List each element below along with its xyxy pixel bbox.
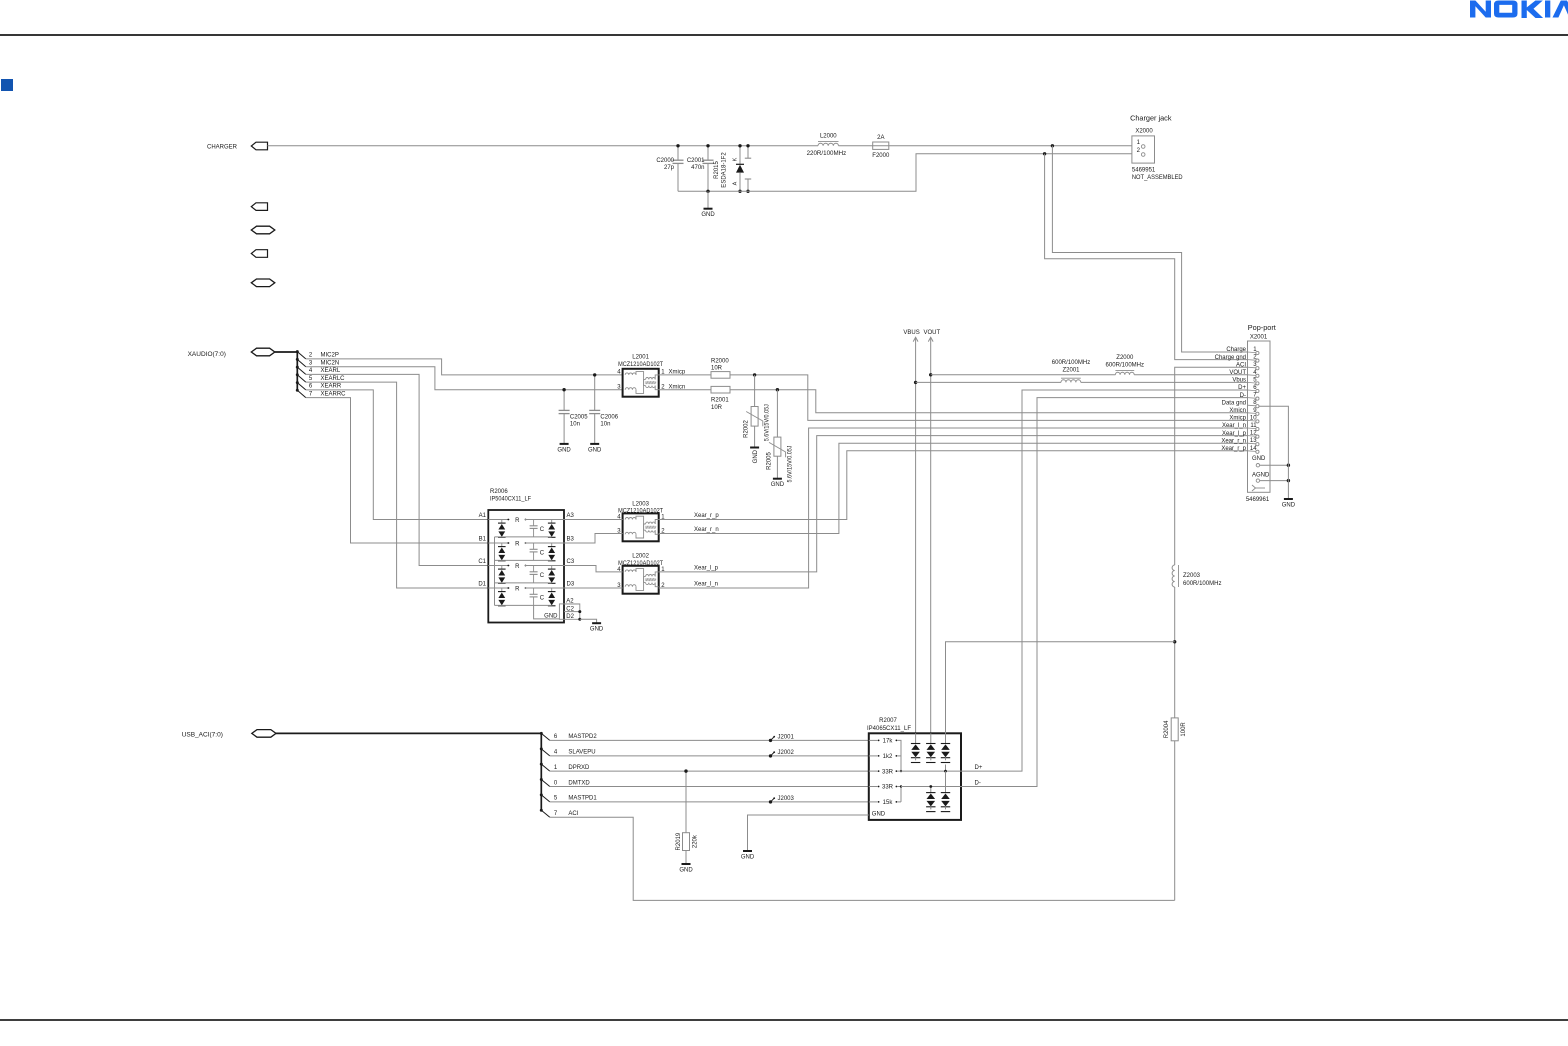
- svg-text:C3: C3: [567, 559, 575, 565]
- bus ripper XAUDIO bit 5 XEARLC: [296, 373, 345, 382]
- svg-text:R: R: [515, 541, 520, 547]
- wire junction to R2007 top col3: [946, 642, 1175, 734]
- wire F2000 to charger jack: [889, 145, 1140, 147]
- svg-text:33R: 33R: [882, 769, 894, 775]
- svg-text:R2002: R2002: [744, 420, 750, 438]
- svg-text:L2000: L2000: [820, 134, 837, 140]
- svg-text:A: A: [733, 181, 739, 185]
- svg-text:D+: D+: [975, 765, 983, 771]
- svg-text:100R: 100R: [1181, 722, 1187, 737]
- ground C2006: [588, 444, 602, 454]
- svg-text:Xear_r_n: Xear_r_n: [694, 527, 719, 533]
- wire Charge net to pop-port pin1: [1052, 146, 1247, 352]
- pop-port pin8 circle wire to gnd: [1259, 406, 1288, 499]
- R2006 channel A1-A3: [479, 513, 575, 537]
- wire MIC2P to L2001 pin4: [306, 359, 623, 375]
- svg-text:470n: 470n: [691, 165, 704, 171]
- pop-port pin 1 Charge: [1226, 347, 1259, 355]
- svg-text:X2000: X2000: [1135, 128, 1153, 134]
- port CHARGER: [251, 142, 267, 150]
- svg-text:15k: 15k: [883, 800, 894, 806]
- net VBUS: [903, 330, 919, 733]
- svg-text:5469961: 5469961: [1246, 497, 1270, 503]
- svg-text:GND: GND: [590, 627, 604, 633]
- wire CHARGER main: [268, 145, 819, 147]
- svg-text:R: R: [515, 586, 520, 592]
- wire R2006 A3 to L2003 pin4: [564, 519, 623, 521]
- inductor L2000: [807, 134, 847, 158]
- capacitor C2000: [656, 146, 683, 192]
- bus ripper XAUDIO bit 6 XEARR: [296, 381, 342, 390]
- svg-text:B1: B1: [479, 537, 487, 543]
- pop-port pin 5 Vbus: [1232, 377, 1259, 385]
- svg-text:Z2001: Z2001: [1062, 367, 1080, 373]
- junction charger/jack pin1: [1051, 144, 1054, 147]
- varistor R2002: [744, 375, 771, 448]
- pop-port pin 12 Xear_l_p: [1222, 431, 1259, 439]
- svg-text:5: 5: [554, 796, 558, 802]
- svg-text:GND: GND: [679, 868, 693, 874]
- svg-text:R2001: R2001: [711, 398, 729, 404]
- svg-text:Xear_r_p: Xear_r_p: [1221, 446, 1246, 452]
- svg-text:R2004: R2004: [1164, 720, 1170, 738]
- resistor R2004 100R: [1164, 718, 1187, 741]
- wire D+ to pop-port pin6: [961, 390, 1248, 771]
- svg-text:0: 0: [554, 780, 558, 786]
- svg-text:GND: GND: [557, 447, 571, 453]
- EMI filter R2006 IP5040CX11_LF: [488, 489, 564, 622]
- svg-text:7: 7: [554, 811, 558, 817]
- varistor R2005: [766, 390, 793, 483]
- svg-text:5.6V/15V/0.05J: 5.6V/15V/0.05J: [765, 404, 771, 441]
- svg-text:1k2: 1k2: [883, 754, 893, 760]
- svg-text:MIC2N: MIC2N: [321, 361, 340, 367]
- pop-port pin 6 D+: [1238, 385, 1259, 393]
- junction VBUS/Vbus row: [914, 381, 917, 384]
- wire ACI net: [550, 817, 1175, 900]
- svg-text:IP5040CX11_LF: IP5040CX11_LF: [490, 497, 531, 503]
- svg-text:Xear_l_n: Xear_l_n: [1222, 423, 1246, 429]
- svg-text:R2019: R2019: [676, 832, 682, 850]
- svg-text:C2006: C2006: [600, 415, 618, 421]
- svg-text:R2000: R2000: [711, 358, 729, 364]
- svg-text:27p: 27p: [664, 165, 675, 171]
- wire XEARR to R2006 A1: [306, 390, 489, 520]
- junction R2019 tap: [684, 769, 687, 772]
- pop-port pin 4 VOUT: [1229, 370, 1259, 378]
- wire XAUDIO bus spine: [296, 351, 298, 391]
- port USB_ACI(7:0): [252, 730, 276, 738]
- ground C2005: [557, 444, 571, 454]
- svg-text:5.6V/15V/0.05J: 5.6V/15V/0.05J: [787, 446, 793, 483]
- pop-port pin 7 D-: [1240, 393, 1259, 401]
- junction jack pin2: [1043, 152, 1046, 155]
- svg-text:C: C: [540, 550, 545, 556]
- wire Z2003 to R2004: [1174, 587, 1176, 718]
- R2007 internal bracket top: [897, 740, 901, 771]
- pop-port pin 10 Xmicp: [1229, 415, 1259, 423]
- wire L2001 pin2 Xmicn: [659, 389, 711, 391]
- svg-text:MIC2P: MIC2P: [321, 353, 339, 359]
- diode R2015 ESDA18-1F2: [714, 146, 751, 192]
- R2007 internal resistor 33R: [869, 785, 898, 791]
- svg-text:GND: GND: [753, 449, 759, 463]
- net VOUT: [923, 330, 940, 733]
- wire MASTPD2 to R2007: [550, 739, 869, 741]
- svg-text:A3: A3: [567, 513, 575, 519]
- svg-text:CHARGER: CHARGER: [207, 144, 238, 150]
- svg-text:Xear_l_p: Xear_l_p: [1222, 431, 1247, 437]
- svg-text:GND: GND: [741, 855, 755, 861]
- svg-text:GND: GND: [1252, 456, 1266, 462]
- svg-text:Z2000: Z2000: [1116, 355, 1134, 361]
- bus ripper XAUDIO bit 2 MIC2P: [296, 350, 339, 359]
- pop-port AGND pin: [1252, 472, 1288, 482]
- svg-text:B3: B3: [567, 537, 575, 543]
- fuse F2000: [872, 135, 890, 159]
- svg-text:Z2003: Z2003: [1183, 573, 1201, 579]
- R2006 internal gnd bus: [494, 537, 496, 606]
- svg-text:600R/100MHz: 600R/100MHz: [1183, 581, 1222, 587]
- ground R2019: [679, 864, 693, 874]
- wire DPRXD to R2007: [550, 770, 869, 772]
- pop-port pin 2 Charge gnd: [1215, 355, 1259, 363]
- wire DMTXD to R2007: [550, 786, 869, 788]
- wire Vbus to pop-port pin5: [916, 381, 1061, 383]
- R2006 gnd pins A2 C2 D2: [544, 599, 581, 621]
- wire R2006 C3 to L2002 pin4: [564, 566, 623, 572]
- R2006 channel C1-C3: [478, 559, 575, 583]
- wire SLAVEPU to R2007: [550, 755, 869, 757]
- pop-port pin 8 Data gnd: [1222, 400, 1259, 408]
- svg-text:10n: 10n: [600, 422, 610, 428]
- svg-text:10n: 10n: [570, 422, 580, 428]
- port stub (bus): [251, 279, 274, 287]
- svg-text:R2006: R2006: [490, 489, 508, 495]
- bus ripper XAUDIO bit 4 XEARL: [296, 366, 341, 375]
- bus ripper USB_ACI bit 6 MASTPD2: [540, 732, 598, 741]
- svg-text:A1: A1: [479, 513, 487, 519]
- inductor Z2003 600R/100MHz: [1172, 565, 1221, 587]
- ground R2002: [750, 448, 759, 464]
- pop-port pin 9 Xmicn: [1229, 408, 1259, 416]
- svg-text:4: 4: [309, 368, 313, 374]
- R2007 internal resistor 15k: [869, 800, 898, 806]
- svg-text:600R/100MHz: 600R/100MHz: [1052, 360, 1091, 366]
- svg-text:33R: 33R: [882, 785, 894, 791]
- svg-text:17k: 17k: [883, 739, 894, 745]
- wire USB_ACI bus spine: [540, 733, 542, 810]
- R2007 internal resistor 1k2: [869, 754, 898, 760]
- R2007 internal bracket bottom: [897, 787, 901, 802]
- pop-port shield pin: [1252, 485, 1256, 491]
- svg-text:MCZ1210AD102T: MCZ1210AD102T: [618, 362, 663, 368]
- wire Xear_r_n to pop-port pin13: [659, 443, 1248, 533]
- svg-text:5: 5: [309, 376, 313, 382]
- R2007 col3 down to D+: [945, 765, 947, 772]
- inductor L2001 MCZ1210AD102T: [617, 355, 665, 397]
- svg-text:C: C: [540, 527, 545, 533]
- junction gnd: [1287, 464, 1290, 467]
- bus ripper USB_ACI bit 7 ACI: [540, 809, 579, 818]
- R2007 internal resistor 33R: [869, 769, 898, 775]
- svg-text:R2005: R2005: [766, 452, 772, 470]
- junction VOUT row: [929, 373, 932, 376]
- svg-text:IP4065CX11_LF: IP4065CX11_LF: [867, 726, 911, 732]
- charger jack X2000: [1130, 114, 1183, 182]
- svg-text:XEARR: XEARR: [321, 384, 342, 390]
- svg-text:L2002: L2002: [632, 554, 649, 560]
- svg-text:D-: D-: [975, 781, 981, 787]
- R2007 internal resistor 17k: [869, 739, 898, 745]
- svg-text:C: C: [540, 595, 545, 601]
- svg-text:Xmicn: Xmicn: [1229, 408, 1246, 414]
- svg-text:Xear_r_p: Xear_r_p: [694, 513, 719, 519]
- svg-text:Charger jack: Charger jack: [1130, 114, 1172, 123]
- capacitor C2001: [687, 146, 714, 192]
- svg-text:R2015: R2015: [714, 161, 720, 179]
- bus ripper XAUDIO bit 3 MIC2N: [296, 358, 339, 367]
- svg-text:XEARL: XEARL: [321, 368, 341, 374]
- svg-text:7: 7: [309, 391, 313, 397]
- bus ripper XAUDIO bit 7 XEARRC: [296, 389, 346, 398]
- junction C2001 top: [706, 144, 709, 147]
- resistor R2001 10R: [711, 386, 730, 410]
- junction rail C2001: [706, 190, 709, 193]
- svg-text:1: 1: [554, 765, 558, 771]
- wire L2000 to F2000: [839, 145, 873, 147]
- svg-text:MCZ1210AD102T: MCZ1210AD102T: [618, 508, 663, 514]
- svg-text:2A: 2A: [877, 135, 884, 141]
- svg-text:AGND: AGND: [1252, 472, 1270, 478]
- svg-text:L2003: L2003: [632, 501, 649, 507]
- svg-text:R: R: [515, 564, 520, 570]
- wire Xear_l_n to pop-port pin11: [659, 428, 1248, 588]
- capacitor C2005: [559, 390, 589, 444]
- svg-text:X2001: X2001: [1250, 334, 1268, 340]
- junction R2002 tap: [753, 373, 756, 376]
- svg-text:VOUT: VOUT: [1229, 370, 1246, 376]
- wire MASTPD1 to R2007: [550, 801, 869, 803]
- svg-text:XEARLC: XEARLC: [321, 376, 346, 382]
- resistor R2019 220k: [676, 771, 699, 864]
- bus ripper USB_ACI bit 0 DMTXD: [540, 778, 591, 787]
- test point J2003: [769, 796, 795, 804]
- R2007 D- row: [901, 786, 961, 788]
- svg-text:D-: D-: [1240, 393, 1246, 399]
- bus ripper USB_ACI bit 1 DPRXD: [540, 763, 590, 772]
- svg-text:DPRXD: DPRXD: [568, 765, 590, 771]
- wire R2007 gnd: [748, 815, 869, 851]
- junction C2005: [562, 388, 565, 391]
- wire USB_ACI bus: [276, 732, 541, 734]
- svg-text:VOUT: VOUT: [923, 330, 940, 336]
- svg-text:C2001: C2001: [687, 158, 705, 164]
- svg-text:Xear_r_n: Xear_r_n: [1221, 438, 1246, 444]
- svg-text:K: K: [733, 157, 739, 161]
- inductor L2003 MCZ1210AD102T: [617, 501, 665, 541]
- svg-text:D1: D1: [478, 582, 486, 588]
- header rule: [0, 34, 1568, 36]
- svg-text:R: R: [515, 518, 520, 524]
- wire XEARLC to R2006 D1: [306, 382, 489, 588]
- wire Xear_l_p to pop-port pin12: [659, 436, 1248, 572]
- port stub (input): [251, 250, 267, 258]
- ground R2007: [741, 851, 755, 861]
- svg-text:J2003: J2003: [778, 796, 795, 802]
- svg-text:C2: C2: [566, 606, 574, 612]
- R2007 D+ row: [897, 770, 961, 772]
- svg-text:XAUDIO(7:0): XAUDIO(7:0): [188, 351, 226, 358]
- wire ACI to pop-port pin3: [1175, 367, 1248, 565]
- pop-port pin 11 Xear_l_n: [1222, 423, 1259, 431]
- wire R2001 to pop-port pin9 Xmicn: [730, 390, 1248, 413]
- pop-port pin 13 Xear_r_n: [1221, 438, 1259, 446]
- svg-text:J2002: J2002: [778, 750, 795, 756]
- svg-text:C: C: [540, 573, 545, 579]
- svg-text:GND: GND: [771, 482, 785, 488]
- junction C2006: [593, 373, 596, 376]
- svg-text:MCZ1210AD102T: MCZ1210AD102T: [618, 561, 663, 567]
- svg-text:SLAVEPU: SLAVEPU: [568, 750, 595, 756]
- footer rule: [0, 1019, 1568, 1021]
- svg-text:D2: D2: [566, 614, 574, 620]
- svg-text:F2000: F2000: [872, 153, 890, 159]
- svg-text:USB_ACI(7:0): USB_ACI(7:0): [182, 732, 223, 739]
- ground pop-port: [1282, 499, 1296, 509]
- svg-text:ESDA18-1F2: ESDA18-1F2: [722, 152, 728, 188]
- wire XAUDIO bus: [275, 351, 298, 353]
- connector X2001 Pop-port: [1246, 323, 1276, 503]
- inductor L2002 MCZ1210AD102T: [617, 554, 665, 594]
- port XAUDIO(7:0): [251, 348, 274, 356]
- wire MIC2N to L2001 pin3: [306, 367, 623, 390]
- junction agnd: [1287, 479, 1290, 482]
- wire Xear_r_p to pop-port pin14: [659, 451, 1248, 520]
- svg-text:2: 2: [309, 353, 313, 359]
- svg-text:6: 6: [554, 734, 558, 740]
- svg-text:4: 4: [554, 750, 558, 756]
- svg-text:MASTPD2: MASTPD2: [568, 734, 597, 740]
- svg-text:NOT_ASSEMBLED: NOT_ASSEMBLED: [1132, 175, 1183, 181]
- ground R2005: [771, 479, 785, 489]
- svg-text:GND: GND: [544, 614, 558, 620]
- wire VOUT to pop-port pin4: [931, 374, 1116, 376]
- svg-text:C2000: C2000: [656, 158, 674, 164]
- svg-text:C1: C1: [478, 559, 486, 565]
- svg-text:ACI: ACI: [568, 811, 578, 817]
- wire D- to pop-port pin7: [961, 398, 1248, 787]
- wire R2006 gnd out: [580, 619, 597, 623]
- svg-text:R2007: R2007: [879, 718, 897, 724]
- wire R2006 B3 to L2003 pin3: [564, 534, 623, 544]
- svg-text:D+: D+: [1238, 385, 1246, 391]
- svg-text:Pop-port: Pop-port: [1248, 323, 1276, 332]
- svg-text:Xear_l_n: Xear_l_n: [694, 581, 718, 587]
- capacitor C2006: [589, 375, 619, 444]
- inductor Z2001 600R/100MHz: [1052, 360, 1091, 383]
- R2006 channel B1-B3: [479, 537, 575, 561]
- pop-port GND pin: [1252, 456, 1288, 467]
- svg-text:Data gnd: Data gnd: [1222, 400, 1246, 406]
- pop-port pin 3 ACI: [1236, 362, 1259, 370]
- blue section square: [1, 79, 13, 91]
- wire XEARL to R2006 C1: [306, 374, 489, 565]
- junction C2000 top: [676, 144, 679, 147]
- svg-text:GND: GND: [872, 812, 886, 818]
- svg-text:C2005: C2005: [570, 415, 588, 421]
- junction ACI/R2007 branch: [1173, 640, 1176, 643]
- port stub (input): [251, 203, 267, 211]
- svg-text:Xear_l_p: Xear_l_p: [694, 565, 719, 571]
- svg-text:5469951: 5469951: [1132, 167, 1156, 173]
- bus ripper USB_ACI bit 4 SLAVEPU: [540, 747, 596, 756]
- svg-text:ACI: ACI: [1236, 362, 1246, 368]
- port stub (bus): [251, 226, 274, 234]
- test point J2002: [769, 750, 795, 758]
- svg-text:GND: GND: [1282, 503, 1296, 509]
- wire R2006 D3 to L2002 pin3: [564, 587, 623, 589]
- svg-text:J2001: J2001: [778, 734, 795, 740]
- bus ripper USB_ACI bit 5 MASTPD1: [540, 793, 598, 802]
- svg-text:10R: 10R: [711, 405, 723, 411]
- svg-text:600R/100MHz: 600R/100MHz: [1106, 363, 1145, 369]
- svg-text:Charge: Charge: [1226, 347, 1246, 353]
- pop-port pin 14 Xear_r_p: [1221, 446, 1259, 454]
- NOKIA logo: [1470, 1, 1568, 19]
- R2007 ESD diodes top row: [911, 733, 920, 762]
- svg-text:Vbus: Vbus: [1232, 378, 1246, 384]
- svg-text:Charge gnd: Charge gnd: [1215, 355, 1246, 361]
- svg-text:3: 3: [309, 361, 313, 367]
- R2007 ESD diodes bottom row: [930, 787, 932, 793]
- wire XEARRC to R2006 B1: [306, 398, 489, 543]
- wire charger gnd rail: [678, 154, 1140, 192]
- svg-text:D3: D3: [567, 582, 575, 588]
- svg-text:XEARRC: XEARRC: [321, 391, 347, 397]
- R2006 channel D1-D3: [478, 582, 575, 606]
- svg-text:DMTXD: DMTXD: [568, 780, 590, 786]
- svg-text:220k: 220k: [693, 834, 699, 848]
- test point J2001: [769, 734, 795, 742]
- svg-text:A2: A2: [566, 599, 574, 605]
- ground R2006: [590, 623, 604, 633]
- resistor R2000 10R: [711, 358, 730, 378]
- junction R2005 tap: [776, 388, 779, 391]
- wire Charge gnd net to pop-port pin2: [1045, 154, 1248, 360]
- EMI filter R2007 IP4065CX11_LF: [867, 718, 961, 820]
- svg-text:Xmicp: Xmicp: [1229, 416, 1246, 422]
- ground under C2001: [707, 191, 709, 208]
- svg-text:220R/100MHz: 220R/100MHz: [807, 151, 847, 157]
- svg-text:VBUS: VBUS: [903, 330, 919, 336]
- wire R2004 down to ACI bottom run: [1174, 741, 1176, 901]
- svg-text:L2001: L2001: [632, 355, 649, 361]
- svg-text:GND: GND: [701, 212, 715, 218]
- wire L2001 pin1 Xmicp: [659, 374, 711, 376]
- svg-text:GND: GND: [588, 447, 602, 453]
- svg-text:6: 6: [309, 384, 313, 390]
- wire R2000 to pop-port pin10 Xmicp: [730, 375, 1248, 421]
- inductor Z2000 600R/100MHz: [1106, 355, 1145, 375]
- svg-text:10R: 10R: [711, 366, 723, 372]
- svg-text:MASTPD1: MASTPD1: [568, 796, 597, 802]
